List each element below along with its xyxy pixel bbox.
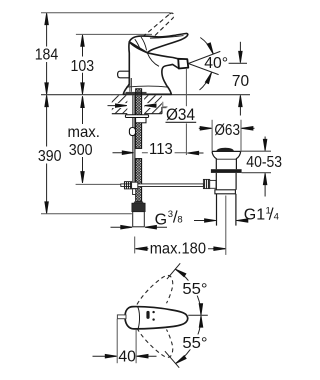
aerator leader line (185, 69, 187, 155)
ref line top of raised lever (184) (41, 12, 171, 14)
lower hose (136, 159, 142, 202)
svg-text:70: 70 (232, 73, 249, 90)
svg-text:103: 103 (71, 58, 95, 75)
rod joint capsule (129, 128, 135, 136)
G1 1/4 arrows (194, 220, 247, 222)
svg-text:max.: max. (68, 124, 100, 141)
rod left knurled adjuster (124, 182, 131, 189)
pop-up rod knob at back (118, 71, 130, 78)
handle indicator dots (152, 311, 154, 313)
55° arc bottom (176, 316, 201, 363)
dimension 390 (46, 96, 48, 213)
text G1 1/4 (244, 206, 279, 224)
dimension max300 (82, 97, 84, 183)
svg-text:8: 8 (177, 214, 182, 225)
70 ref line at spout level (229, 62, 247, 64)
waste flange top (212, 150, 241, 152)
pop-up T rod horizontal (121, 184, 204, 187)
deck bottom lines (112, 113, 128, 115)
pin at back of handle (117, 315, 126, 319)
shank collar above deck (126, 92, 147, 95)
text 55° top (182, 281, 209, 296)
dim 40 extension lines (117, 319, 136, 363)
Ø34 underline (166, 121, 197, 123)
dashed raised lever (133, 13, 174, 47)
base joint interior line (126, 86, 169, 87)
deck step (162, 108, 167, 114)
waste rubber washer (211, 169, 242, 173)
svg-text:max.180: max.180 (150, 241, 207, 258)
flange trumpet sides (212, 151, 216, 169)
dim 40 arrows (93, 355, 157, 357)
svg-text:°: ° (222, 55, 228, 72)
lever interior lines (135, 36, 184, 52)
mounting nut (136, 118, 146, 123)
ref line rod level (max300) (76, 183, 123, 185)
G3/8 arrows (111, 226, 168, 228)
max.180 extension line left (134, 237, 136, 254)
rod right knurled knob (203, 179, 209, 188)
rod mid block (132, 182, 138, 188)
svg-text:G1: G1 (244, 206, 265, 223)
rod lower end (133, 189, 136, 195)
centerline right of handle (188, 314, 208, 316)
text G3/8 (155, 209, 183, 229)
svg-text:G: G (155, 212, 167, 229)
Ø34 arrows (108, 105, 157, 107)
ref line top of lever (103) (76, 33, 152, 35)
deck step shadow (163, 102, 168, 107)
dimension 113 (142, 152, 187, 154)
40° rays (188, 51, 220, 74)
deck surface line (41, 94, 250, 96)
Ø63 extension lines (212, 120, 241, 151)
hose end nut (132, 203, 145, 211)
pop-up rod above deck (130, 78, 132, 92)
svg-text:Ø34: Ø34 (166, 106, 195, 124)
pop-up rod below deck (133, 95, 135, 184)
handle indicator bar (146, 311, 149, 319)
body neck interior line (147, 53, 159, 67)
lever handle (side view) (129, 33, 188, 52)
dimension 70 (239, 42, 241, 116)
55° arc top (176, 269, 201, 314)
faucet body (123, 42, 179, 95)
svg-text:40: 40 (204, 55, 222, 72)
svg-text:55°: 55° (182, 335, 207, 352)
40-53 ref lines (241, 151, 271, 173)
svg-text:Ø63: Ø63 (214, 122, 240, 139)
svg-text:4: 4 (274, 212, 279, 223)
40° arc arrows (200, 38, 213, 54)
55° extension line bottom (165, 351, 179, 368)
handle top view (125, 307, 188, 329)
svg-text:300: 300 (69, 142, 93, 159)
waste coupling (215, 190, 236, 194)
svg-text:184: 184 (35, 47, 59, 64)
rod clevis at waste (210, 180, 216, 188)
dimension 103 (82, 35, 84, 94)
svg-text:113: 113 (149, 141, 173, 158)
aerator (178, 59, 188, 69)
svg-text:1: 1 (266, 206, 271, 217)
40-53 arrows (264, 137, 266, 197)
G3/8 nipple (133, 212, 145, 227)
dimension 184 (46, 14, 48, 94)
deck hatched section (112, 95, 128, 113)
mounting washer (125, 115, 148, 118)
white bands for Ø34 arrows across hatch (110, 103, 127, 108)
waste body (216, 173, 236, 190)
dashed handle swept position down 55 (137, 328, 173, 357)
tailpipe (217, 194, 236, 226)
text 55° bottom (182, 334, 209, 349)
bottom ref line of 390 (41, 213, 132, 215)
dimension max.180 (135, 248, 225, 250)
handle hub line (138, 307, 140, 329)
svg-text:40: 40 (118, 349, 136, 366)
svg-text:3: 3 (168, 209, 173, 220)
svg-text:40-53: 40-53 (246, 154, 282, 171)
55° extension line top (167, 263, 180, 279)
plug dome (216, 148, 234, 152)
dashed handle swept position up 55 (137, 275, 173, 304)
svg-text:55°: 55° (182, 281, 207, 298)
svg-text:390: 390 (38, 148, 62, 165)
Ø63 arrows (199, 127, 255, 129)
threaded shank + upper hose (136, 89, 142, 149)
waste center line (225, 196, 227, 255)
